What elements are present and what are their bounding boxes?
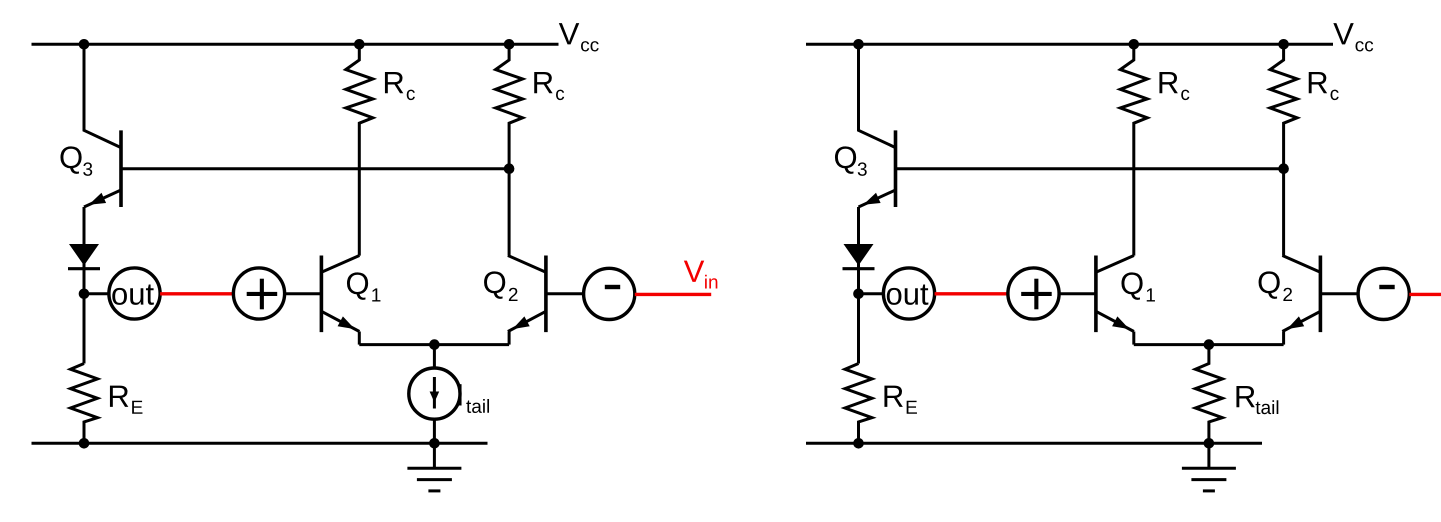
wire: + terminal to Q1 base (left circuit) [285,292,322,295]
transistor Q2 (diff pair right, right circuit) [1282,256,1320,333]
resistor Rc (left collector load, right circuit) [1120,44,1147,255]
transistor Q3 (emitter follower, left circuit) [84,130,121,207]
terminal out (left circuit) [109,268,160,319]
wire (red): - terminal to Vin (left circuit) [635,293,711,296]
label Q2 (right circuit) [1259,271,1292,301]
resistor RE (follower load, left circuit) [71,364,98,444]
junction: bottom rail / tail (right circuit) [1204,438,1215,449]
label Q3 (left circuit) [60,146,92,176]
junction: top rail / Rc1 (left circuit) [354,39,365,50]
junction: out node (right circuit) [853,289,864,300]
junction: top rail / Rc2 (left circuit) [504,39,515,50]
label Itail (left circuit) [459,384,489,413]
wire: Q3 emitter down to out node (left circuit) [83,207,86,364]
wire: Q1 emitter to tail rail (right circuit) [1132,332,1135,345]
junction: Q3 base / Rc2-Q2 collector node (right circuit) [1278,163,1289,174]
source + terminal (non-inverting input, right circuit) [1008,268,1059,319]
junction: Q3 base / Rc2-Q2 collector node (left circuit) [504,163,515,174]
resistor Rc (right collector load, left circuit) [496,44,523,255]
label RE (left circuit) [110,386,143,414]
junction: bottom rail / RE (left circuit) [79,438,90,449]
wire: Q3 base line to Q2 collector (left circuit) [121,167,509,170]
junction: out node (left circuit) [79,289,90,300]
junction: top rail / Rc1 (right circuit) [1129,39,1140,50]
wire: common emitter tail rail (right circuit) [1134,343,1284,346]
ground symbol (left circuit) [407,443,461,491]
transistor Q3 (emitter follower, right circuit) [859,130,896,207]
resistor Rtail (right circuit) [1195,345,1222,444]
resistor RE (follower load, right circuit) [845,364,872,444]
wire: ground bottom rail (left circuit) [32,442,488,445]
diode D1 (level shift, right circuit) [843,244,875,269]
source + terminal (non-inverting input, left circuit) [233,268,284,319]
wire (red): out terminal to + input (left circuit) [160,292,233,295]
wire: tail node to current source (left circuit) [433,345,436,369]
wire: Q2 emitter to tail rail (left circuit) [508,332,511,345]
wire: Q3 collector to Vcc rail (left circuit) [84,44,121,147]
label Vcc (left circuit) [559,23,599,51]
label RE (right circuit) [884,386,917,414]
source - terminal (inverting input, left circuit) [584,268,635,319]
source - terminal (inverting input, right circuit) [1358,268,1409,319]
transistor Q1 (diff pair left, right circuit) [1096,256,1134,333]
junction: top rail / Q3 collector (right circuit) [853,39,864,50]
label Rc (right, left circuit) [534,72,564,100]
transistor Q2 (diff pair right, left circuit) [508,256,546,333]
transistor Q1 (diff pair left, left circuit) [321,256,359,333]
diode D1 (level shift, left circuit) [68,244,100,269]
wire: Q3 collector to Vcc rail (right circuit) [859,44,896,147]
wire: ground bottom rail (right circuit) [806,442,1262,445]
junction: tail node (right circuit) [1204,339,1215,350]
wire: Q3 emitter down to out node (right circuit) [857,207,860,364]
resistor Rc (left collector load, left circuit) [346,44,373,255]
wire: common emitter tail rail (left circuit) [359,343,509,346]
wire: Vcc top rail (left circuit) [32,43,559,46]
label Rc (left, right circuit) [1159,72,1189,100]
label Q2 (left circuit) [484,271,517,301]
junction: bottom rail / RE (right circuit) [853,438,864,449]
resistor Rc (right collector load, right circuit) [1270,44,1297,255]
wire: Q1 emitter to tail rail (left circuit) [358,332,361,345]
label Vcc (right circuit) [1333,23,1373,51]
wire (red): out terminal to + input (right circuit) [935,292,1008,295]
wire: Q2 base stub to - input (left circuit) [546,292,584,295]
label Q1 (left circuit) [347,272,380,301]
wire (red): - terminal toward Vin, clipped at edge (right circuit) [1409,293,1441,296]
wire: Vcc top rail (right circuit) [806,43,1333,46]
ground symbol (right circuit) [1182,443,1236,491]
terminal out (right circuit) [883,268,934,319]
junction: top rail / Rc2 (right circuit) [1278,39,1289,50]
wire: + terminal to Q1 base (right circuit) [1059,292,1096,295]
wire: current source to ground rail (left circuit) [433,419,436,443]
junction: top rail / Q3 collector (left circuit) [79,39,90,50]
junction: bottom rail / tail (left circuit) [429,438,440,449]
label Rc (right, right circuit) [1309,72,1339,100]
wire: out node stub to out terminal (right circuit) [859,292,884,295]
wire: Q2 base stub to - input (right circuit) [1320,292,1358,295]
wire: out node stub to out terminal (left circuit) [84,292,109,295]
wire: Q3 base line to Q2 collector (right circuit) [896,167,1284,170]
label Q3 (right circuit) [835,146,867,176]
junction: tail node (left circuit) [429,339,440,350]
label Rtail (right circuit) [1236,386,1278,414]
wire: Q2 emitter to tail rail (right circuit) [1282,332,1285,345]
label Rc (left, left circuit) [385,72,415,100]
label Vin (red, left circuit) [684,261,718,289]
label Q1 (right circuit) [1121,272,1154,301]
current source Itail (left circuit) [409,368,460,419]
